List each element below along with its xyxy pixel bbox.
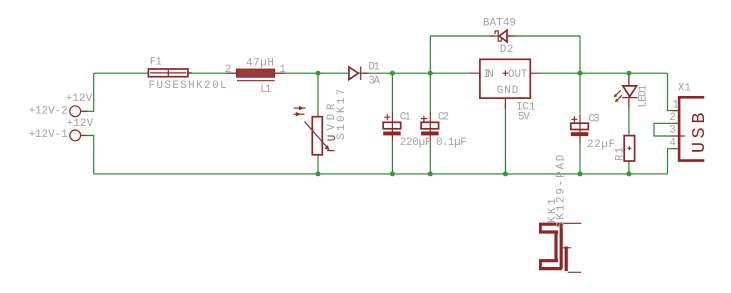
- svg-text:R1: R1: [614, 147, 626, 161]
- svg-text:C3: C3: [589, 114, 600, 126]
- svg-text:L1: L1: [260, 84, 271, 96]
- svg-text:SK129-PAD: SK129-PAD: [555, 155, 567, 228]
- svg-text:2: 2: [225, 64, 231, 76]
- svg-text:1: 1: [672, 99, 678, 111]
- svg-text:OUT: OUT: [508, 69, 528, 81]
- svg-text:+12V: +12V: [67, 118, 94, 130]
- svg-text:FUSESHK20L: FUSESHK20L: [149, 80, 227, 92]
- svg-text:1: 1: [279, 64, 285, 76]
- svg-text:BAT49: BAT49: [483, 18, 516, 30]
- svg-text:220µF: 220µF: [400, 137, 432, 149]
- svg-text:22µF: 22µF: [587, 139, 615, 151]
- svg-text:D2: D2: [500, 44, 513, 56]
- svg-text:USB: USB: [689, 113, 710, 154]
- svg-text:+12V-2: +12V-2: [29, 106, 68, 118]
- svg-text:GND: GND: [497, 85, 518, 97]
- svg-text:3: 3: [669, 125, 675, 137]
- svg-text:0.1µF: 0.1µF: [436, 137, 467, 149]
- svg-text:3A: 3A: [368, 75, 380, 87]
- svg-text:U: U: [327, 135, 339, 141]
- svg-text:D1: D1: [368, 62, 380, 74]
- svg-text:X1: X1: [678, 82, 691, 94]
- svg-text:LED1: LED1: [638, 85, 650, 108]
- svg-text:F1: F1: [150, 57, 162, 69]
- svg-text:IN: IN: [484, 69, 494, 81]
- svg-text:5V: 5V: [518, 112, 531, 124]
- svg-text:+12V-1: +12V-1: [29, 129, 68, 141]
- svg-text:2: 2: [669, 112, 675, 124]
- svg-text:C2: C2: [438, 112, 449, 124]
- svg-text:+12V: +12V: [66, 93, 93, 105]
- svg-text:47µH: 47µH: [246, 57, 274, 69]
- svg-text:4: 4: [669, 137, 675, 149]
- svg-text:C1: C1: [400, 112, 411, 124]
